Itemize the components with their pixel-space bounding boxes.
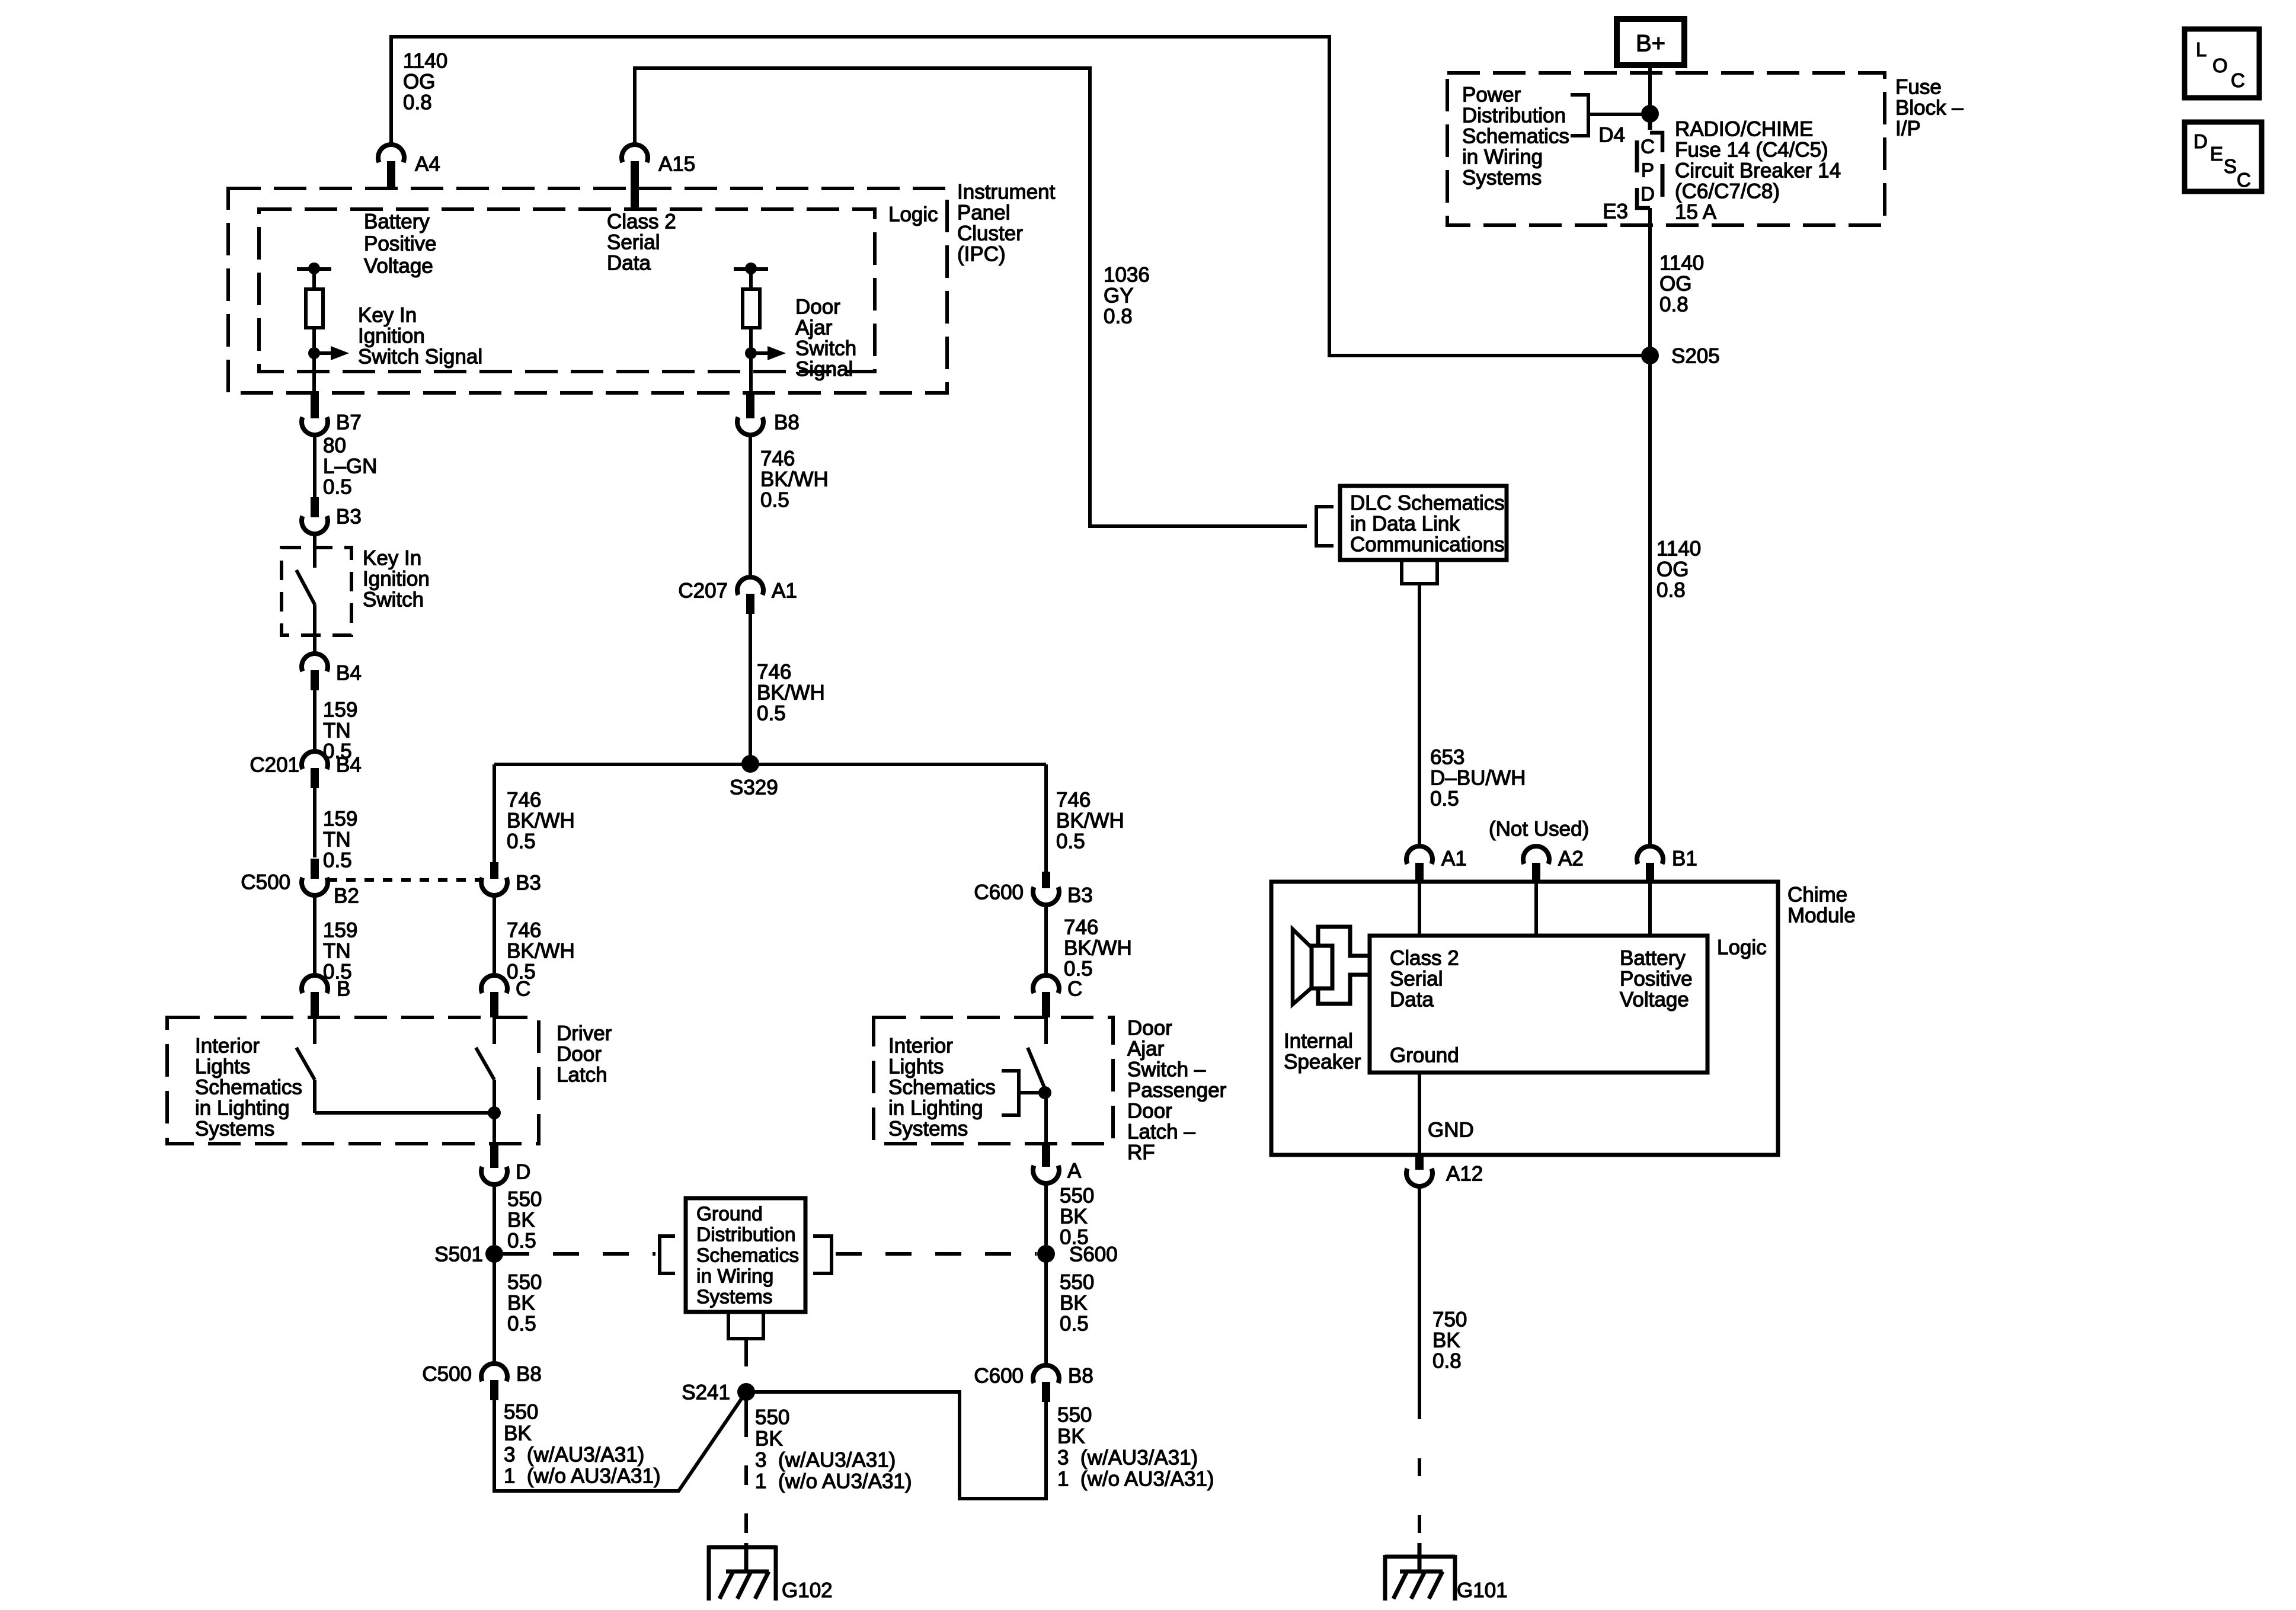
- svg-text:B3: B3: [516, 872, 541, 895]
- pin label A2 (chime): [1558, 847, 1584, 870]
- svg-text:DoorAjarSwitchSignal: DoorAjarSwitchSignal: [795, 296, 856, 381]
- wire dashed ground ref to S241: [744, 1350, 748, 1387]
- fuse RADIO/CHIME Fuse 14 / Circuit Breaker 14: [1637, 114, 1662, 208]
- svg-text:1036GY0.8: 1036GY0.8: [1104, 264, 1150, 328]
- connector A12 (chime module): [1406, 1155, 1432, 1186]
- svg-text:1140OG0.8: 1140OG0.8: [403, 50, 447, 114]
- svg-text:Ground: Ground: [1390, 1044, 1459, 1067]
- svg-text:B+: B+: [1636, 31, 1665, 57]
- wire 653 D-BU/WH DLC to chime A1: [1418, 584, 1421, 845]
- connector A15 (IPC): [622, 145, 648, 209]
- svg-text:550BK0.5: 550BK0.5: [507, 1188, 542, 1253]
- bracket ground distribution right: [813, 1236, 832, 1273]
- label wire 80 L-GN 0.5: [323, 434, 377, 499]
- svg-text:FuseBlock –I/P: FuseBlock –I/P: [1895, 76, 1964, 140]
- pin label D4: [1598, 124, 1625, 147]
- svg-text:B1: B1: [1672, 847, 1697, 870]
- label wire 746 BK/WH 0.5 (passenger 1): [1056, 789, 1124, 853]
- svg-text:S329: S329: [730, 776, 778, 799]
- junction S205: [1641, 347, 1659, 364]
- wire 746 BK/WH driver branch: [493, 764, 496, 862]
- connector label C500: [241, 871, 290, 894]
- wire dashed 750 BK to G101: [1418, 1401, 1421, 1543]
- svg-text:DriverDoorLatch: DriverDoorLatch: [557, 1022, 612, 1087]
- label (Not Used): [1489, 818, 1589, 841]
- fuse path label P: [1641, 159, 1654, 181]
- svg-text:G102: G102: [782, 1579, 833, 1602]
- pin label E3: [1603, 200, 1628, 223]
- label wire 550 BK 0.5 (passenger 2): [1060, 1271, 1094, 1336]
- wire ground ref stem: [744, 1339, 748, 1350]
- svg-text:653D–BU/WH0.5: 653D–BU/WH0.5: [1430, 746, 1526, 811]
- connector label C207: [678, 580, 728, 603]
- svg-text:159TN0.5: 159TN0.5: [323, 808, 357, 872]
- ground label G101: [1457, 1579, 1508, 1602]
- connector B4: [302, 654, 328, 690]
- svg-text:C600: C600: [974, 1365, 1024, 1388]
- junction label S600: [1069, 1243, 1118, 1266]
- svg-text:C: C: [1067, 978, 1082, 1001]
- power symbol B+: [1617, 19, 1684, 65]
- ground G102: [709, 1543, 776, 1601]
- dashed box Door Ajar Switch Passenger Door Latch RF: [874, 1017, 1113, 1144]
- svg-text:B7: B7: [336, 411, 362, 434]
- svg-text:746BK/WH0.5: 746BK/WH0.5: [507, 919, 575, 984]
- wire 1140 OG S205 to chime B1: [1648, 356, 1652, 845]
- wire driver latch switch tie: [315, 1111, 494, 1115]
- label wire 746 BK/WH 0.5 (driver 2): [507, 919, 575, 984]
- label wire 550 BK 0.5 (passenger 1): [1060, 1185, 1094, 1249]
- label wire 159 TN 0.5 (2): [323, 808, 357, 872]
- svg-text:1140OG0.8: 1140OG0.8: [1659, 252, 1704, 316]
- resistor Door Ajar Switch Signal (IPC pull-up): [734, 263, 768, 393]
- svg-text:C500: C500: [241, 871, 290, 894]
- connector A2 (chime module): [1523, 846, 1549, 882]
- dashed box Key In Ignition Switch: [282, 548, 351, 635]
- label wire 159 TN 0.5 (1): [323, 699, 357, 763]
- connector D (driver door latch): [481, 1144, 507, 1185]
- legend box DESC: [2185, 122, 2262, 191]
- pin label C (driver): [516, 978, 530, 1001]
- svg-text:Class 2SerialData: Class 2SerialData: [1390, 947, 1459, 1012]
- label wire 746 BK/WH 0.5 (driver 1): [507, 789, 575, 853]
- svg-text:550BK0.5: 550BK0.5: [1060, 1271, 1094, 1336]
- wire 746 BK/WH segment 2: [749, 610, 752, 764]
- junction passenger switch pivot: [1038, 1086, 1051, 1099]
- label Key In Ignition Switch: [363, 547, 430, 612]
- label wire 1140 OG 0.8 (top left): [403, 50, 447, 114]
- svg-text:746BK/WH0.5: 746BK/WH0.5: [1064, 916, 1132, 981]
- connector B8 (IPC): [737, 393, 763, 435]
- svg-text:750BK0.8: 750BK0.8: [1432, 1308, 1467, 1373]
- label wire 746 BK/WH 0.5 (1): [760, 447, 829, 512]
- pin label A12: [1446, 1163, 1483, 1186]
- svg-text:L: L: [2196, 39, 2207, 60]
- connector B7 (IPC): [302, 393, 328, 435]
- label wire 1036 GY 0.8: [1104, 264, 1150, 328]
- svg-text:C: C: [1641, 136, 1655, 158]
- connector C500 pin B8: [481, 1363, 507, 1400]
- junction driver latch switches: [488, 1106, 501, 1119]
- connector A1 (chime module): [1406, 846, 1432, 882]
- wire B1 into logic: [1648, 882, 1652, 936]
- svg-text:Key InIgnitionSwitch: Key InIgnitionSwitch: [363, 547, 430, 612]
- svg-text:(Not Used): (Not Used): [1489, 818, 1589, 841]
- label Logic (IPC): [888, 203, 938, 226]
- wire S241 to ground stub: [744, 1392, 748, 1417]
- svg-text:D: D: [516, 1161, 530, 1184]
- svg-text:746BK/WH0.5: 746BK/WH0.5: [757, 661, 825, 725]
- label Logic (chime): [1717, 936, 1767, 959]
- svg-text:DoorAjarSwitch –PassengerDoorL: DoorAjarSwitch –PassengerDoorLatch –RF: [1127, 1017, 1227, 1164]
- svg-text:746BK/WH0.5: 746BK/WH0.5: [1056, 789, 1124, 853]
- pin label C (passenger): [1067, 978, 1082, 1001]
- pin label B4 (C201): [336, 754, 362, 777]
- svg-text:InteriorLightsSchematicsin Lig: InteriorLightsSchematicsin LightingSyste…: [888, 1035, 996, 1141]
- junction label S501: [434, 1243, 483, 1266]
- pin label B8: [774, 411, 800, 434]
- connector B3: [302, 497, 328, 534]
- svg-text:C600: C600: [974, 881, 1024, 904]
- dashed box Instrument Panel Cluster (IPC): [228, 188, 947, 393]
- svg-text:E: E: [2210, 143, 2223, 165]
- label RADIO/CHIME Fuse 14 Circuit Breaker 14 15A: [1675, 118, 1841, 224]
- connector C201 pin B4: [302, 751, 328, 788]
- label Driver Door Latch: [557, 1022, 612, 1087]
- switch Key In Ignition Switch: [296, 548, 315, 635]
- dashed box Driver Door Latch: [167, 1017, 539, 1144]
- label Ground (chime): [1390, 1044, 1459, 1067]
- svg-text:E3: E3: [1603, 200, 1628, 223]
- connector C600 pin B3: [1033, 872, 1059, 905]
- svg-text:B3: B3: [336, 505, 362, 529]
- legend box LOC: [2185, 29, 2259, 98]
- pin label B7: [336, 411, 362, 434]
- pin label B3 (C600): [1067, 884, 1093, 907]
- svg-text:B8: B8: [516, 1363, 542, 1386]
- fuse path label C: [1641, 136, 1655, 158]
- connector B1 (chime module): [1637, 846, 1663, 882]
- pin label A15: [658, 153, 695, 176]
- connector C (driver door latch): [481, 975, 507, 1017]
- wire 1140 OG fuse to S205: [1648, 208, 1652, 356]
- bracket DLC reference left: [1316, 507, 1334, 546]
- label wire 550 BK options (passenger): [1057, 1404, 1214, 1491]
- wire 550 BK driver to S241: [494, 1392, 746, 1491]
- label Door Ajar Switch Signal: [795, 296, 856, 381]
- junction B+ / fuse feed: [1641, 105, 1659, 123]
- label wire 159 TN 0.5 (3): [323, 919, 357, 984]
- dashed box Fuse Block - I/P: [1447, 73, 1885, 225]
- wire A2 into logic: [1534, 882, 1538, 936]
- svg-text:GroundDistributionSchematicsin: GroundDistributionSchematicsin WiringSys…: [696, 1204, 799, 1308]
- pin label A4: [415, 153, 440, 176]
- label Door Ajar Switch - Passenger Door Latch - RF: [1127, 1017, 1227, 1164]
- label wire 746 BK/WH 0.5 (2): [757, 661, 825, 725]
- svg-text:G101: G101: [1457, 1579, 1508, 1602]
- legend letters DESC: [2193, 130, 2251, 191]
- bracket interior lights reference (passenger): [1002, 1071, 1043, 1115]
- wire dashed ground ref to S600: [836, 1252, 1037, 1256]
- ground G101: [1385, 1543, 1455, 1601]
- wire dotted connector C500 tie line: [328, 878, 480, 882]
- connector A (passenger door latch): [1033, 1144, 1059, 1183]
- wire 746 BK/WH segment 1: [749, 434, 752, 577]
- wire key switch to B4: [313, 635, 316, 655]
- wire 550 BK passenger segment 2: [1044, 1254, 1048, 1366]
- svg-text:550BK0.5: 550BK0.5: [1060, 1185, 1094, 1249]
- svg-text:S501: S501: [434, 1243, 483, 1266]
- pin label B2: [334, 885, 359, 908]
- svg-text:550BK0.5: 550BK0.5: [507, 1271, 542, 1336]
- bracket DLC reference bottom: [1402, 560, 1437, 584]
- switch key-in contact (driver door latch): [296, 1017, 315, 1113]
- arrow Key In Ignition Switch Signal: [308, 346, 349, 360]
- box Chime Module: [1271, 882, 1778, 1155]
- svg-text:InternalSpeaker: InternalSpeaker: [1284, 1030, 1361, 1074]
- legend letters LOC: [2196, 39, 2245, 91]
- svg-text:A12: A12: [1446, 1163, 1483, 1186]
- svg-text:A15: A15: [658, 153, 695, 176]
- wire B+ feed: [1648, 65, 1652, 114]
- connector label C600: [974, 881, 1024, 904]
- label Internal Speaker: [1284, 1030, 1361, 1074]
- svg-text:1140OG0.8: 1140OG0.8: [1657, 537, 1701, 602]
- connector label C201: [250, 754, 299, 777]
- svg-text:550BK3 (w/AU3/A31)1 (w/o AU3: 550BK3 (w/AU3/A31)1 (w/o AU3/A31): [1057, 1404, 1214, 1491]
- connector C207 pin A1: [737, 577, 763, 614]
- wire 550 BK driver segment 1: [493, 1183, 496, 1245]
- ground label G102: [782, 1579, 833, 1602]
- label wire 550 BK 0.5 (driver 2): [507, 1271, 542, 1336]
- wire splice S329 horizontal: [494, 763, 1046, 766]
- wire A1 into logic: [1418, 882, 1421, 936]
- pin label A1 (C207): [772, 580, 797, 603]
- pin label D (driver): [516, 1161, 530, 1184]
- label wire 550 BK 0.5 (driver 1): [507, 1188, 542, 1253]
- svg-text:A1: A1: [1441, 847, 1467, 870]
- speaker internal speaker icon: [1293, 927, 1370, 1004]
- junction label S205: [1671, 345, 1720, 368]
- junction S241: [737, 1383, 755, 1401]
- label DLC Schematics in Data Link Communications: [1350, 492, 1505, 556]
- pin label A1 (chime): [1441, 847, 1467, 870]
- svg-text:B4: B4: [336, 662, 362, 685]
- svg-text:B8: B8: [774, 411, 800, 434]
- svg-text:C: C: [2237, 169, 2251, 191]
- svg-text:D4: D4: [1598, 124, 1625, 147]
- connector B (driver door latch): [302, 975, 328, 1017]
- connector A4 (IPC): [378, 145, 404, 188]
- svg-text:C207: C207: [678, 580, 728, 603]
- wire 550 BK driver segment 2: [493, 1254, 496, 1365]
- wire 159 TN segment 1: [313, 687, 316, 751]
- label wire 550 BK options (S241): [755, 1406, 912, 1493]
- junction label S329: [730, 776, 778, 799]
- pin label B8 (C600): [1068, 1365, 1093, 1388]
- label wire 750 BK 0.8: [1432, 1308, 1467, 1373]
- svg-text:D: D: [1641, 183, 1655, 205]
- wire 1140 OG from IPC A4 to S205: [391, 37, 1650, 356]
- svg-text:C500: C500: [422, 1363, 472, 1386]
- svg-text:Class 2SerialData: Class 2SerialData: [607, 210, 676, 275]
- label wire 1140 OG 0.8 (fuse): [1659, 252, 1704, 316]
- svg-text:C: C: [516, 978, 530, 1001]
- fuse path label D: [1641, 183, 1655, 205]
- wire 550 BK passenger segment 1: [1044, 1182, 1048, 1245]
- svg-text:B: B: [337, 978, 350, 1001]
- svg-text:InteriorLightsSchematicsin Lig: InteriorLightsSchematicsin LightingSyste…: [195, 1035, 302, 1141]
- label Battery Positive Voltage (IPC input): [364, 210, 437, 278]
- svg-text:550BK3 (w/AU3/A31)1 (w/o AU3: 550BK3 (w/AU3/A31)1 (w/o AU3/A31): [755, 1406, 912, 1493]
- label Battery Positive Voltage (chime): [1620, 947, 1693, 1012]
- connector C600 pin B8: [1033, 1365, 1059, 1402]
- connector label C600 (bottom): [974, 1365, 1024, 1388]
- svg-text:S241: S241: [682, 1381, 730, 1404]
- switch door ajar contact (passenger door latch): [1028, 1017, 1046, 1144]
- wire 80 L-GN segment: [313, 434, 316, 501]
- wire logic ground to GND: [1418, 1073, 1421, 1155]
- svg-text:S: S: [2224, 155, 2237, 177]
- svg-text:159TN0.5: 159TN0.5: [323, 919, 357, 984]
- svg-text:GND: GND: [1428, 1119, 1474, 1142]
- svg-text:BatteryPositiveVoltage: BatteryPositiveVoltage: [1620, 947, 1693, 1012]
- svg-text:B3: B3: [1067, 884, 1093, 907]
- pin label B (driver): [337, 978, 350, 1001]
- pin label A (passenger): [1067, 1160, 1082, 1183]
- svg-text:O: O: [2212, 55, 2228, 76]
- svg-text:Key InIgnitionSwitch Signal: Key InIgnitionSwitch Signal: [358, 304, 482, 369]
- wire 746 BK/WH passenger segment 2: [1044, 904, 1048, 977]
- svg-text:Logic: Logic: [1717, 936, 1767, 959]
- svg-text:C201: C201: [250, 754, 299, 777]
- label wire 1140 OG 0.8 (to chime): [1657, 537, 1701, 602]
- wire 159 TN segment 2: [313, 785, 316, 857]
- connector label C500 (bottom): [422, 1363, 472, 1386]
- label Interior Lights Schematics in Lighting Systems (passenger): [888, 1035, 996, 1141]
- bracket power distribution reference: [1571, 95, 1650, 136]
- bracket ground distribution left: [660, 1236, 675, 1273]
- junction label S241: [682, 1381, 730, 1404]
- pin label B3 (driver): [516, 872, 541, 895]
- svg-text:B8: B8: [1068, 1365, 1093, 1388]
- label Power Distribution Schematics in Wiring Systems: [1462, 84, 1569, 190]
- svg-text:BatteryPositiveVoltage: BatteryPositiveVoltage: [364, 210, 437, 278]
- pin label B1 (chime): [1672, 847, 1697, 870]
- wire 1036 GY from IPC A15 to DLC ref: [635, 68, 1307, 526]
- box DLC Schematics in Data Link Communications: [1340, 486, 1507, 560]
- label wire 550 BK options (driver): [504, 1401, 661, 1488]
- box Ground Distribution Schematics in Wiring Systems: [686, 1198, 805, 1312]
- dashed box IPC Logic: [259, 209, 875, 372]
- junction S329: [741, 755, 759, 773]
- label Class 2 Serial Data (chime): [1390, 947, 1459, 1012]
- svg-text:A4: A4: [415, 153, 440, 176]
- svg-text:B2: B2: [334, 885, 359, 908]
- svg-text:D: D: [2193, 130, 2208, 152]
- label Class 2 Serial Data (IPC): [607, 210, 676, 275]
- label wire 746 BK/WH 0.5 (passenger 2): [1064, 916, 1132, 981]
- svg-text:A: A: [1067, 1160, 1082, 1183]
- label Ground Distribution Schematics in Wiring Systems: [696, 1204, 799, 1308]
- svg-text:746BK/WH0.5: 746BK/WH0.5: [507, 789, 575, 853]
- wire 746 BK/WH driver segment 2: [493, 894, 496, 977]
- connector C500 pin B2: [302, 859, 328, 895]
- junction S501: [485, 1245, 503, 1263]
- label GND: [1428, 1119, 1474, 1142]
- wire into key switch box: [313, 533, 316, 548]
- junction S600: [1037, 1245, 1055, 1263]
- pin label B8 (C500): [516, 1363, 542, 1386]
- svg-text:P: P: [1641, 159, 1654, 181]
- svg-text:746BK/WH0.5: 746BK/WH0.5: [760, 447, 829, 512]
- connector B3 (driver door latch): [481, 862, 507, 895]
- label Instrument Panel Cluster (IPC): [957, 181, 1056, 266]
- wire 159 TN segment 3: [313, 894, 316, 977]
- svg-text:S205: S205: [1671, 345, 1720, 368]
- pin label B3: [336, 505, 362, 529]
- wire dashed S241 to G102: [744, 1417, 748, 1543]
- svg-text:DLC Schematicsin Data LinkComm: DLC Schematicsin Data LinkCommunications: [1350, 492, 1505, 556]
- bracket ground distribution bottom: [728, 1312, 763, 1339]
- label Fuse Block - I/P: [1895, 76, 1964, 140]
- label Chime Module: [1787, 884, 1856, 927]
- box Chime Module Logic: [1370, 936, 1707, 1073]
- label wire 653 D-BU/WH 0.5: [1430, 746, 1526, 811]
- svg-text:ChimeModule: ChimeModule: [1787, 884, 1856, 927]
- switch door ajar contact (driver door latch): [476, 1017, 494, 1144]
- wire 550 BK passenger to S241: [746, 1392, 1046, 1499]
- svg-text:550BK3 (w/AU3/A31)1 (w/o AU3: 550BK3 (w/AU3/A31)1 (w/o AU3/A31): [504, 1401, 661, 1488]
- wire 750 BK segment: [1418, 1185, 1421, 1401]
- svg-text:PowerDistributionSchematicsin: PowerDistributionSchematicsin WiringSyst…: [1462, 84, 1569, 190]
- svg-text:S600: S600: [1069, 1243, 1118, 1266]
- svg-text:InstrumentPanelCluster(IPC): InstrumentPanelCluster(IPC): [957, 181, 1056, 266]
- svg-text:80L–GN0.5: 80L–GN0.5: [323, 434, 377, 499]
- svg-text:Logic: Logic: [888, 203, 938, 226]
- svg-text:B4: B4: [336, 754, 362, 777]
- wire dashed S501 to ground ref: [503, 1252, 655, 1256]
- label B+: [1636, 31, 1665, 57]
- svg-text:RADIO/CHIMEFuse 14 (C4/C5)Circ: RADIO/CHIMEFuse 14 (C4/C5)Circuit Breake…: [1675, 118, 1841, 224]
- connector C (passenger door latch): [1033, 975, 1059, 1017]
- svg-text:C: C: [2231, 69, 2245, 91]
- arrow Door Ajar Switch Signal: [745, 346, 786, 360]
- svg-text:A1: A1: [772, 580, 797, 603]
- svg-text:A2: A2: [1558, 847, 1584, 870]
- wire 746 BK/WH passenger branch: [1044, 764, 1048, 872]
- label Interior Lights Schematics in Lighting Systems (driver): [195, 1035, 302, 1141]
- pin label B4: [336, 662, 362, 685]
- label Key In Ignition Switch Signal: [358, 304, 482, 369]
- resistor Key In Ignition Switch Signal (IPC pull-up): [297, 263, 331, 393]
